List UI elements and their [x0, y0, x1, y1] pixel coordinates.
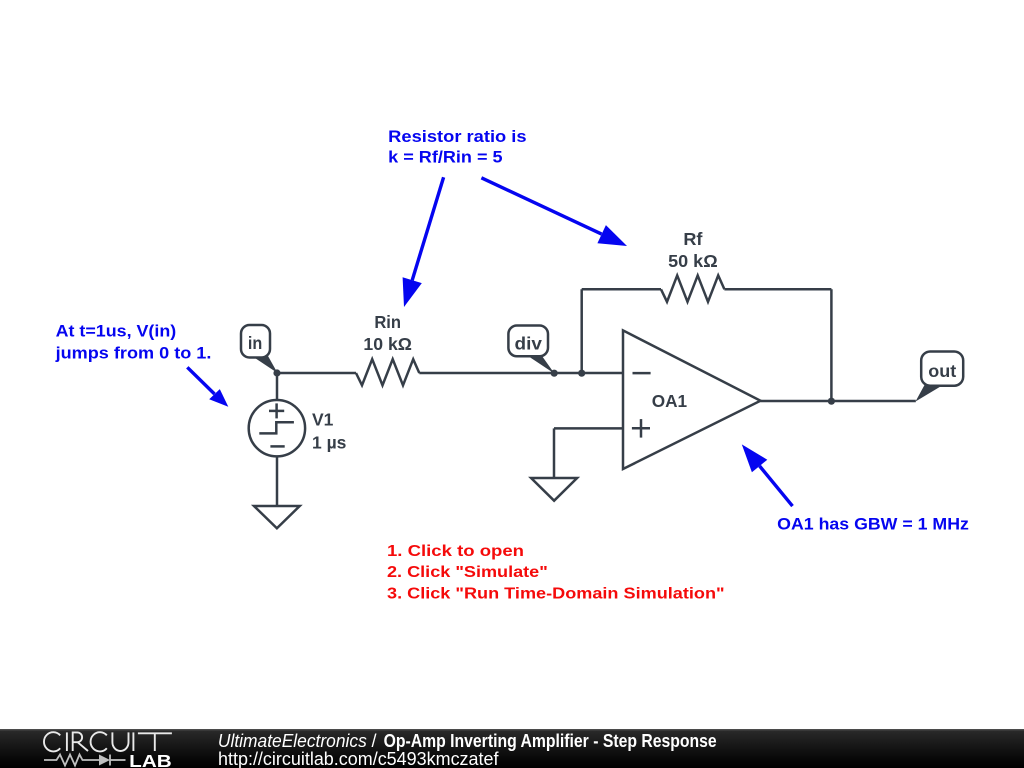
svg-text:OA1 has GBW = 1 MHz: OA1 has GBW = 1 MHz: [777, 516, 969, 534]
wire: V1 top lead: [276, 373, 279, 400]
svg-text:3. Click "Run Time-Domain Simu: 3. Click "Run Time-Domain Simulation": [387, 585, 725, 602]
V1 step waveform glyph: [259, 422, 294, 433]
V1 minus sign: [270, 445, 284, 448]
svg-text:Resistor ratio is: Resistor ratio is: [388, 128, 526, 146]
V1 plus sign: [269, 403, 284, 418]
svg-text:10 kΩ: 10 kΩ: [363, 334, 412, 354]
resistor Rf: [661, 275, 724, 301]
annotation text red instructions: [387, 543, 725, 602]
node flag div: [508, 326, 554, 374]
node flag in: [241, 325, 278, 373]
svg-text:At t=1us, V(in): At t=1us, V(in): [56, 323, 177, 341]
wire: feedback riser: [580, 289, 583, 373]
junction dot feedback tap: [578, 370, 585, 377]
wire: op-amp output: [761, 400, 916, 403]
annotation arrow C to Rf: [481, 178, 627, 246]
svg-text:div: div: [515, 334, 543, 354]
svg-text:50 kΩ: 50 kΩ: [668, 251, 718, 271]
node flag out: [916, 352, 964, 402]
svg-text:in: in: [248, 333, 262, 353]
svg-text:1. Click to open: 1. Click to open: [387, 543, 524, 560]
svg-text:OA1: OA1: [652, 391, 688, 411]
wire: non-inverting ground drop: [553, 428, 556, 478]
annotation arrow D to op-amp: [742, 444, 793, 506]
wire: feedback top right segment: [724, 288, 831, 291]
op-amp plus input symbol: [632, 419, 650, 438]
wire: non-inverting input lead: [554, 427, 623, 430]
wire: V1 bottom lead: [276, 456, 279, 506]
ground for V1: [254, 506, 300, 528]
svg-text:k = Rf/Rin = 5: k = Rf/Rin = 5: [388, 149, 502, 167]
wire: input node to Rin: [277, 372, 356, 375]
svg-text:Rin: Rin: [374, 312, 401, 332]
annotation arrow B to Rin label: [403, 177, 444, 307]
voltage source V1 circle: [249, 400, 305, 456]
annotation text: Resistor ratio is / k = Rf/Rin = 5: [388, 128, 526, 167]
footer bar: [0, 729, 1024, 768]
annotation text: At t=1us V(in) jumps: [55, 323, 212, 363]
CircuitLab logo wordmark CIRCUIT: [44, 732, 172, 751]
svg-text:2. Click "Simulate": 2. Click "Simulate": [387, 564, 548, 581]
svg-text:V1: V1: [312, 410, 334, 430]
resistor Rin: [356, 359, 419, 385]
svg-text:Rf: Rf: [683, 229, 702, 249]
svg-text:LAB: LAB: [129, 751, 172, 768]
CircuitLab logo resistor-diode squiggle: [44, 755, 126, 766]
svg-text:out: out: [928, 361, 956, 381]
wire: feedback right drop: [830, 289, 833, 401]
junction dot node div: [551, 370, 558, 377]
op-amp OA1 body: [623, 330, 761, 469]
op-amp minus input symbol: [633, 372, 651, 375]
svg-text:1 µs: 1 µs: [312, 433, 347, 453]
wire: feedback top left segment: [582, 288, 661, 291]
junction dot node in: [273, 369, 280, 376]
junction dot output feedback: [828, 398, 835, 405]
svg-text:http://circuitlab.com/c5493kmc: http://circuitlab.com/c5493kmczatef: [218, 749, 499, 768]
annotation arrow A to V1: [187, 367, 228, 407]
wire: Rin to op-amp inverting input: [419, 372, 623, 375]
svg-text:jumps from 0 to 1.: jumps from 0 to 1.: [55, 345, 212, 363]
ground for op-amp non-inverting input: [531, 478, 577, 501]
